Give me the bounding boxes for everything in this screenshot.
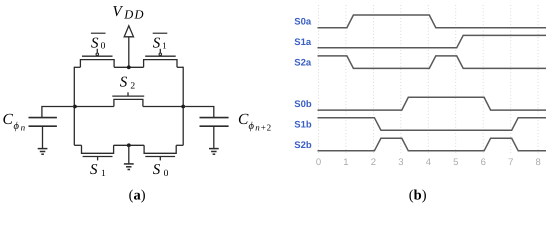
svg-text:S: S [90, 162, 98, 178]
svg-text:S: S [153, 35, 161, 51]
svg-text:2: 2 [371, 157, 376, 168]
svg-text:n: n [255, 123, 260, 133]
svg-text:ϕ: ϕ [249, 121, 255, 132]
wire to center ground [128, 145, 130, 163]
svg-text:3: 3 [398, 157, 403, 168]
svg-text:DD: DD [123, 8, 144, 22]
ground at Cphi_n [38, 149, 48, 155]
svg-text:ϕ: ϕ [14, 121, 20, 132]
svg-text:S0b: S0b [294, 99, 312, 110]
svg-text:5: 5 [453, 157, 458, 168]
svg-text:S: S [91, 35, 99, 51]
label S0 [153, 162, 169, 179]
capacitor Cphi_n+2 [183, 107, 228, 149]
waveform S0b [318, 97, 547, 110]
svg-text:2: 2 [130, 81, 135, 91]
svg-text:S: S [120, 74, 128, 90]
ground center [124, 164, 134, 170]
capacitor Cphi_n [29, 107, 75, 149]
label S1 [90, 162, 106, 179]
wire top rail [74, 66, 183, 68]
svg-text:S2a: S2a [294, 57, 312, 68]
svg-text:V: V [113, 4, 124, 20]
waveform S2b [318, 138, 547, 151]
net VDD label [113, 4, 145, 22]
svg-text:S: S [153, 162, 161, 178]
node right junction [181, 105, 185, 109]
svg-text:C: C [238, 111, 249, 128]
svg-text:n: n [21, 123, 26, 133]
grid dotted verticals [319, 5, 539, 153]
power symbol VDD arrow [124, 26, 133, 68]
svg-text:0: 0 [101, 42, 106, 52]
transistor S2 (middle NMOS) [112, 92, 144, 106]
transistor S0bar (top-left PMOS) [80, 49, 114, 68]
svg-text:0: 0 [164, 169, 169, 179]
svg-text:1: 1 [162, 41, 167, 51]
svg-text:1: 1 [101, 169, 106, 179]
svg-text:4: 4 [426, 157, 431, 168]
svg-text:(b): (b) [409, 188, 427, 204]
svg-text:S2b: S2b [294, 140, 312, 151]
waveform S2a [318, 56, 547, 69]
ground at Cphi_n+2 [209, 149, 219, 155]
svg-text:S1a: S1a [294, 37, 312, 48]
label S1bar [153, 33, 168, 51]
wire right vertical [182, 67, 184, 146]
svg-text:6: 6 [481, 157, 486, 168]
transistor S0 (bottom-right NMOS) [144, 145, 176, 160]
svg-text:(a): (a) [129, 188, 146, 204]
node left junction [73, 105, 77, 109]
svg-text:7: 7 [508, 157, 513, 168]
wire left vertical [73, 67, 75, 146]
svg-text:S1b: S1b [294, 119, 312, 130]
node VDD junction [127, 65, 131, 69]
svg-text:8: 8 [536, 157, 541, 168]
svg-text:+2: +2 [261, 123, 272, 133]
axis tick numbers 0-8 [316, 157, 541, 168]
node source junction [127, 143, 131, 147]
svg-text:1: 1 [343, 157, 348, 168]
transistor S1bar (top-right PMOS) [144, 49, 177, 68]
svg-text:C: C [3, 111, 14, 128]
wire bottom rail [74, 144, 183, 146]
svg-text:0: 0 [316, 157, 321, 168]
wire mid rail left [74, 106, 114, 108]
svg-text:S0a: S0a [294, 17, 312, 28]
label Cphi_n+2 [238, 111, 272, 132]
wire mid rail right [143, 106, 183, 108]
waveform S0a [318, 15, 547, 28]
waveform S1b [318, 118, 547, 131]
transistor S1 (bottom-left NMOS) [82, 145, 114, 160]
label S0bar [91, 33, 106, 51]
waveform S1a [318, 35, 547, 47]
label Cphi_n [3, 111, 26, 132]
label S2 [120, 74, 136, 91]
